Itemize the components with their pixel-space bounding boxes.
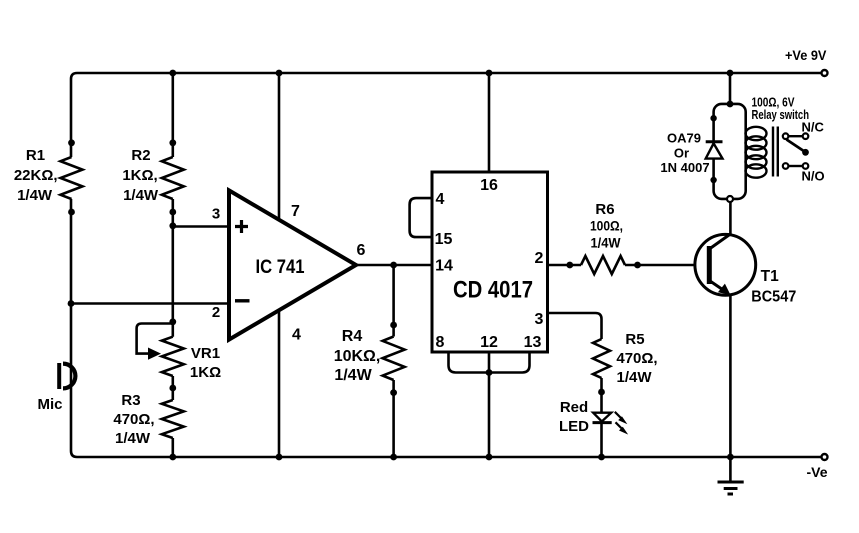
svg-text:Mic: Mic (37, 396, 62, 413)
wire collector to relay (729, 202, 732, 234)
wire top rail +Ve (71, 73, 824, 157)
svg-text:1/4W: 1/4W (616, 369, 652, 386)
svg-text:1/4W: 1/4W (591, 235, 622, 251)
relay switch contacts (783, 133, 809, 168)
label R2 value (122, 147, 159, 204)
node junction pin7/top rail (276, 70, 283, 77)
resistor R1 (61, 139, 83, 215)
svg-text:1/4W: 1/4W (334, 367, 372, 384)
node junction pin12/loop (486, 369, 493, 376)
node junction R2/pin3 (169, 222, 176, 229)
svg-text:T1: T1 (761, 268, 779, 285)
svg-text:LED: LED (559, 418, 589, 435)
wire pin12 down to bottom rail (488, 352, 491, 457)
resistor R4 (383, 265, 405, 460)
svg-text:14: 14 (435, 258, 453, 275)
svg-text:Or: Or (674, 146, 689, 161)
svg-text:6: 6 (357, 242, 366, 259)
svg-text:2: 2 (535, 250, 544, 267)
svg-text:1KΩ,: 1KΩ, (122, 167, 157, 184)
svg-text:1/4W: 1/4W (17, 187, 53, 204)
node junction relay/top rail (727, 70, 734, 77)
svg-text:1/4W: 1/4W (123, 187, 159, 204)
wire emitter to bottom rail (729, 295, 732, 457)
svg-text:3: 3 (535, 311, 544, 328)
label R3 value (113, 392, 154, 447)
svg-text:R2: R2 (131, 147, 150, 164)
svg-text:R6: R6 (595, 201, 614, 218)
svg-text:4: 4 (436, 191, 445, 208)
svg-text:10KΩ,: 10KΩ, (334, 348, 381, 365)
microphone Mic (59, 363, 75, 389)
node junction output/R4 (390, 262, 397, 269)
ground (718, 457, 744, 494)
node junction pin16/top rail (486, 70, 493, 77)
IC U2 CD4017 box (432, 172, 548, 352)
svg-text:470Ω,: 470Ω, (113, 411, 154, 428)
svg-text:2: 2 (212, 304, 220, 321)
node R6 left terminal (566, 262, 573, 269)
node junction R2/top rail (169, 70, 176, 77)
svg-text:8: 8 (436, 334, 445, 351)
wire pin2 to R6 (548, 264, 582, 267)
wire pin7 vertical (behind op-amp) (278, 73, 281, 311)
label OA79 Or 1N4007 (660, 131, 709, 176)
label VR1 value (190, 345, 221, 381)
op-amp U1 IC741 (229, 190, 356, 339)
resistor R6 (581, 256, 625, 274)
svg-text:12: 12 (480, 334, 498, 351)
wire pin16 to top rail (488, 73, 491, 172)
svg-text:22KΩ,: 22KΩ, (14, 167, 58, 184)
wire op-amp output to CD4017 pin14 (356, 264, 432, 267)
wire pin4-pin15 loop (410, 198, 432, 237)
relay coil (746, 127, 767, 178)
label R5 value (616, 331, 657, 386)
node -Ve terminal circle (822, 454, 828, 460)
diode D1 OA79 (706, 115, 723, 183)
wire left column lower / bottom rail -Ve (71, 199, 824, 457)
svg-text:16: 16 (480, 177, 498, 194)
LED D2 red (593, 412, 628, 457)
wire R6 to transistor base (625, 264, 707, 267)
svg-text:470Ω,: 470Ω, (616, 350, 657, 367)
resistor R3 (162, 400, 184, 438)
svg-text:1/4W: 1/4W (115, 430, 151, 447)
transistor Q1 T1 BC547 (695, 234, 756, 295)
svg-text:CD 4017: CD 4017 (453, 277, 533, 304)
node relay top junction (727, 101, 734, 108)
wire R5 to LED (600, 378, 603, 412)
svg-text:1KΩ: 1KΩ (190, 364, 221, 381)
svg-text:100Ω,: 100Ω, (590, 218, 623, 234)
svg-text:15: 15 (435, 231, 453, 248)
wire pin2 from left column to op-amp (71, 302, 227, 305)
label R1 value (14, 147, 58, 204)
svg-text:-Ve: -Ve (806, 464, 827, 480)
svg-text:+Ve 9V: +Ve 9V (785, 48, 827, 63)
wire pin3 from R2 to op-amp (173, 225, 227, 228)
wire top rail to relay (729, 73, 732, 104)
relay K1 frame (714, 104, 746, 199)
resistor R5 (593, 339, 610, 378)
wire pin8-pin13 loop to ground bus (449, 352, 530, 373)
potentiometer VR1 (137, 318, 184, 391)
svg-text:R5: R5 (625, 331, 644, 348)
node junction emitter/bottom rail (727, 454, 734, 461)
node relay bottom terminal circle (727, 196, 733, 202)
node R5 bottom terminal (598, 389, 605, 396)
svg-text:IC 741: IC 741 (256, 257, 305, 278)
label R4 value (334, 328, 381, 384)
node R6 right terminal (634, 262, 641, 269)
label R6 value (590, 201, 623, 251)
wire pin3 to R5 (548, 313, 602, 339)
svg-text:VR1: VR1 (191, 345, 220, 362)
label 100ohm 6V relay switch (752, 95, 810, 122)
node junction left column/pin2 (68, 300, 75, 307)
relay core (773, 127, 778, 177)
svg-text:R4: R4 (342, 328, 363, 345)
resistor R2 (162, 139, 184, 215)
svg-text:Relay switch: Relay switch (752, 107, 810, 122)
svg-text:3: 3 (212, 206, 220, 223)
svg-text:OA79: OA79 (667, 131, 701, 146)
svg-text:4: 4 (292, 327, 301, 344)
svg-text:N/C: N/C (802, 120, 825, 135)
node junction pin4/bottom rail (276, 454, 283, 461)
svg-text:N/O: N/O (801, 169, 824, 184)
node junction LED/bottom rail (598, 454, 605, 461)
wire pin4 vertical (behind op-amp) (278, 310, 281, 457)
node +Ve terminal circle (822, 70, 828, 76)
wire R2 column (172, 73, 175, 457)
svg-text:R3: R3 (121, 392, 140, 409)
label Red LED (559, 399, 589, 435)
svg-text:Red: Red (560, 399, 588, 416)
svg-text:R1: R1 (26, 147, 45, 164)
svg-text:1N 4007: 1N 4007 (660, 160, 709, 175)
node junction R3/bottom rail (169, 454, 176, 461)
svg-text:13: 13 (524, 334, 542, 351)
svg-text:BC547: BC547 (751, 289, 796, 306)
svg-text:7: 7 (291, 203, 300, 220)
node junction pin12/bottom rail (486, 454, 493, 461)
